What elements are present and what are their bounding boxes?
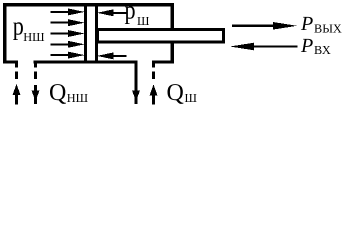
piston rod — [98, 30, 224, 43]
cylinder body top wall — [3, 3, 174, 6]
pressure arrow left chamber 2 — [51, 19, 85, 26]
right port right dashed line — [152, 62, 155, 79]
right port left solid line — [132, 62, 140, 104]
piston right face — [95, 5, 98, 61]
svg-text:Ш: Ш — [185, 91, 198, 105]
flow arrow up dashed right port — [150, 85, 158, 105]
svg-text:Q: Q — [167, 80, 184, 106]
flow arrow down dashed left port — [32, 85, 40, 104]
cylinder body right wall — [171, 3, 175, 64]
cylinder body left wall — [3, 3, 6, 64]
pressure arrow left chamber 3 — [51, 30, 85, 37]
cylinder bottom wall segment 3 — [152, 60, 174, 63]
force arrow P_вх — [230, 43, 298, 51]
svg-text:p: p — [125, 0, 136, 25]
cylinder bottom wall segment 2 — [34, 60, 138, 63]
svg-text:НШ: НШ — [23, 30, 45, 44]
svg-text:НШ: НШ — [67, 91, 89, 105]
svg-text:ВЫХ: ВЫХ — [314, 21, 342, 35]
cylinder bottom wall segment 1 — [3, 60, 18, 63]
pressure arrow rod chamber top — [97, 9, 127, 16]
left port right dashed line — [34, 62, 37, 79]
flow arrow up Q_нш — [13, 84, 21, 105]
pressure arrow left chamber 1 — [51, 8, 85, 15]
pressure arrow rod chamber bottom — [97, 52, 127, 59]
svg-text:ВХ: ВХ — [314, 43, 331, 57]
pressure arrow left chamber 5 — [51, 52, 85, 59]
svg-text:P: P — [300, 35, 313, 57]
svg-text:p: p — [13, 12, 24, 41]
svg-text:Q: Q — [49, 80, 66, 106]
piston left face — [84, 5, 87, 61]
left port left dashed line — [15, 62, 18, 79]
svg-text:Ш: Ш — [137, 14, 150, 28]
svg-text:P: P — [300, 13, 313, 35]
force arrow P_вых — [232, 22, 297, 30]
pressure arrow left chamber 4 — [51, 41, 85, 48]
